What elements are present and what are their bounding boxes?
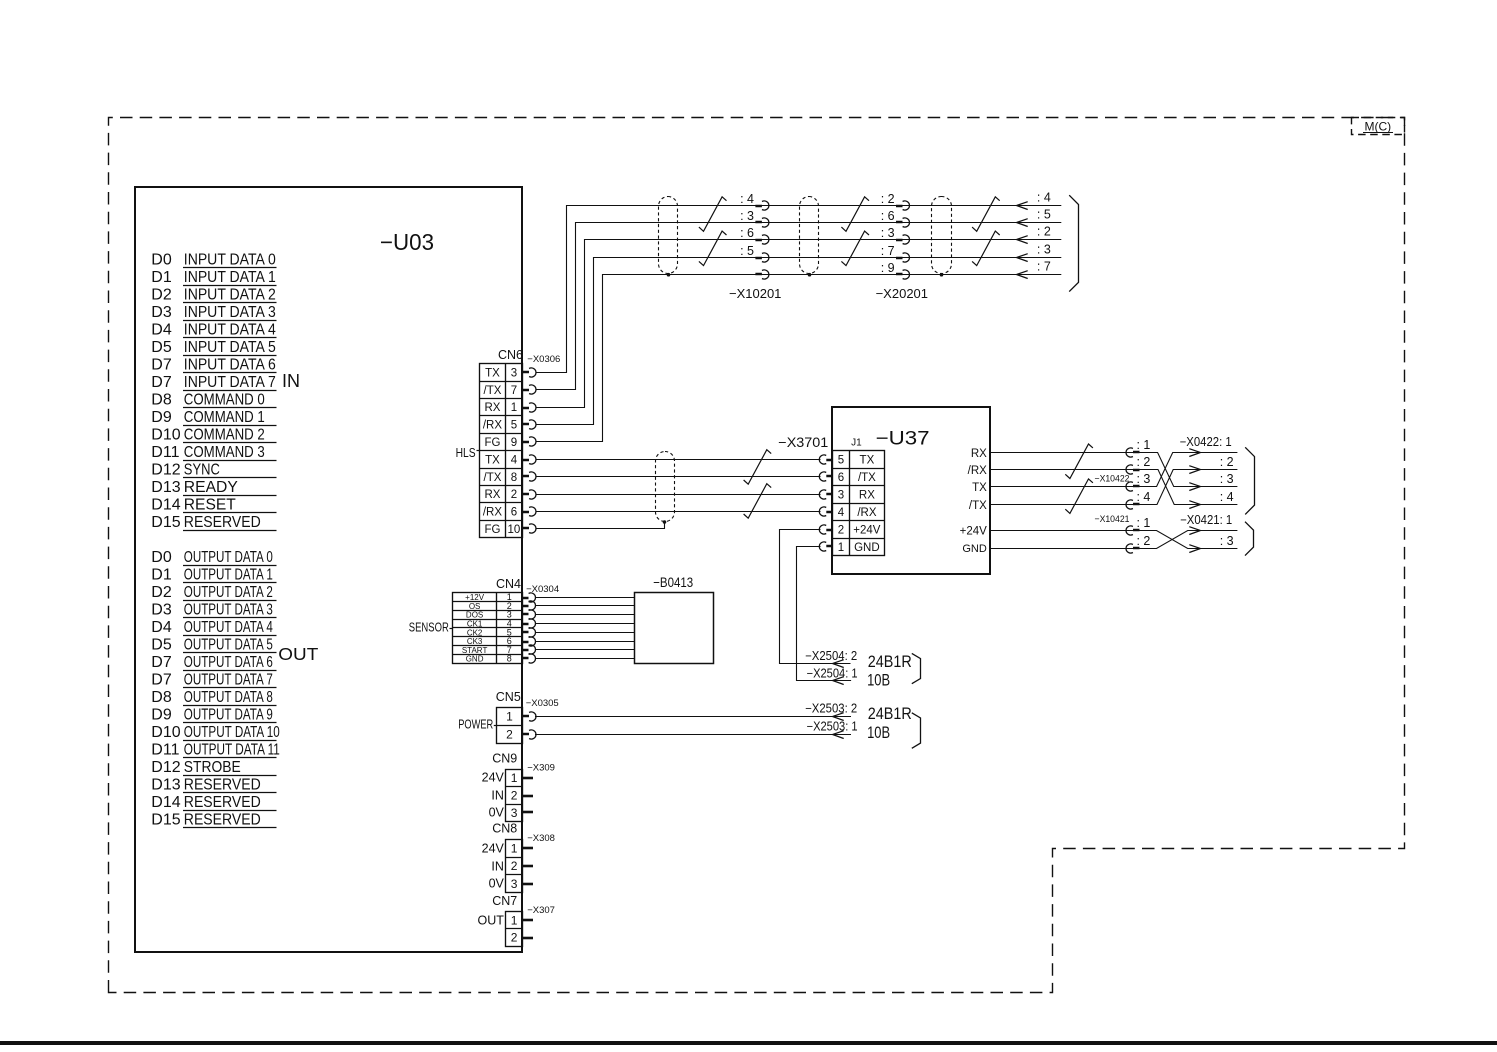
svg-text:−U03: −U03 (380, 229, 434, 255)
svg-text:−X10422: −X10422 (1095, 474, 1130, 484)
svg-text:D5: D5 (151, 637, 172, 654)
svg-text:−X10201: −X10201 (729, 286, 781, 301)
svg-text:−X2504: 2: −X2504: 2 (805, 649, 857, 663)
svg-text:−X10421: −X10421 (1095, 514, 1130, 524)
svg-text:D1: D1 (151, 567, 172, 584)
svg-text:INPUT DATA 2: INPUT DATA 2 (184, 287, 276, 304)
svg-text:1: 1 (511, 771, 518, 785)
svg-text:2: 2 (511, 931, 518, 945)
svg-text:INPUT DATA 0: INPUT DATA 0 (184, 252, 276, 269)
svg-text:RX: RX (484, 402, 500, 414)
svg-text:RESERVED: RESERVED (184, 514, 261, 531)
svg-text:−X2503: 2: −X2503: 2 (805, 701, 857, 715)
svg-text:/RX: /RX (483, 420, 503, 432)
svg-text:RX: RX (859, 489, 875, 501)
svg-text:: 1: : 1 (1136, 516, 1150, 530)
svg-text:: 3: : 3 (740, 209, 754, 223)
svg-text:OUTPUT DATA 9: OUTPUT DATA 9 (184, 707, 273, 724)
svg-text:HLS: HLS (456, 446, 476, 460)
svg-text:D8: D8 (151, 689, 172, 706)
svg-text:: 5: : 5 (740, 244, 754, 258)
svg-text:−X307: −X307 (527, 905, 555, 916)
svg-text:INPUT DATA 5: INPUT DATA 5 (184, 339, 276, 356)
svg-text:−X2503: 1: −X2503: 1 (807, 720, 858, 734)
svg-text:GND: GND (854, 542, 880, 554)
svg-text:D1: D1 (151, 269, 172, 286)
svg-text:: 3: : 3 (1136, 472, 1150, 486)
svg-text:/TX: /TX (969, 500, 987, 512)
svg-text:0V: 0V (489, 877, 505, 891)
svg-text:: 3: : 3 (1220, 472, 1234, 486)
svg-text:D8: D8 (151, 392, 172, 409)
svg-text:0V: 0V (489, 806, 505, 820)
svg-text:D4: D4 (151, 322, 172, 339)
svg-text:: 2: : 2 (1220, 455, 1234, 469)
svg-text:3: 3 (511, 806, 518, 820)
svg-text:: 2: : 2 (1136, 455, 1150, 469)
svg-text:: 6: : 6 (740, 226, 754, 240)
svg-text:D9: D9 (151, 409, 172, 426)
svg-text:−X20201: −X20201 (876, 286, 928, 301)
svg-text:RESET: RESET (184, 497, 236, 514)
svg-text:D13: D13 (151, 777, 180, 794)
svg-text:24V: 24V (482, 771, 505, 785)
svg-text:D14: D14 (151, 794, 180, 811)
svg-text:10: 10 (508, 524, 521, 536)
svg-text:START: START (462, 646, 488, 655)
svg-text:SYNC: SYNC (184, 462, 220, 479)
svg-text:1: 1 (511, 842, 518, 856)
svg-text:D4: D4 (151, 619, 172, 636)
svg-text:RESERVED: RESERVED (184, 777, 261, 794)
svg-text:CN9: CN9 (492, 752, 517, 766)
svg-text:D10: D10 (151, 724, 180, 741)
svg-text:D0: D0 (151, 549, 172, 566)
svg-text:CN6: CN6 (498, 348, 523, 362)
svg-text:−X309: −X309 (527, 763, 555, 774)
svg-text:1: 1 (838, 542, 844, 554)
svg-text:GND: GND (962, 543, 987, 555)
svg-text:D7: D7 (151, 654, 172, 671)
svg-text:RESERVED: RESERVED (184, 812, 261, 829)
svg-text:/TX: /TX (858, 472, 876, 484)
svg-text:D9: D9 (151, 707, 172, 724)
svg-text:OUT: OUT (278, 644, 318, 664)
svg-text:/TX: /TX (484, 472, 502, 484)
svg-text:IN: IN (491, 789, 504, 803)
svg-text:1: 1 (511, 913, 518, 927)
svg-text:: 1: : 1 (1136, 438, 1150, 452)
svg-text:/TX: /TX (484, 385, 502, 397)
svg-text:INPUT DATA 3: INPUT DATA 3 (184, 304, 276, 321)
svg-text:CN4: CN4 (496, 577, 521, 591)
svg-text:COMMAND 2: COMMAND 2 (184, 427, 265, 444)
svg-text:D15: D15 (151, 812, 180, 829)
svg-text:IN: IN (491, 860, 504, 874)
svg-text:OUT: OUT (478, 914, 505, 928)
svg-text:INPUT DATA 1: INPUT DATA 1 (184, 269, 276, 286)
svg-text:INPUT DATA 4: INPUT DATA 4 (184, 322, 276, 339)
svg-text:TX: TX (972, 482, 987, 494)
svg-text:: 6: : 6 (881, 209, 895, 223)
svg-text:: 7: : 7 (881, 244, 895, 258)
svg-text:8: 8 (507, 654, 512, 664)
svg-text:: 7: : 7 (1037, 259, 1051, 273)
svg-text:/RX: /RX (483, 507, 503, 519)
svg-text:5: 5 (511, 420, 517, 432)
svg-text:D0: D0 (151, 252, 172, 269)
svg-text:6: 6 (838, 472, 844, 484)
svg-text:4: 4 (511, 454, 518, 466)
svg-text:6: 6 (511, 507, 517, 519)
svg-text:SENSOR: SENSOR (409, 620, 449, 634)
svg-text:OUTPUT DATA 6: OUTPUT DATA 6 (184, 654, 273, 671)
svg-text:D11: D11 (151, 444, 179, 461)
svg-text:M(C): M(C) (1364, 119, 1391, 133)
svg-text:D2: D2 (151, 287, 172, 304)
svg-text:: 4: : 4 (740, 192, 754, 206)
svg-text:1: 1 (511, 402, 517, 414)
svg-text:OUTPUT DATA 1: OUTPUT DATA 1 (184, 567, 273, 584)
svg-text:−X3701: −X3701 (778, 435, 828, 450)
svg-text:10B: 10B (867, 672, 890, 690)
svg-text:−X0422: 1: −X0422: 1 (1180, 435, 1232, 449)
svg-text:CK1: CK1 (467, 620, 483, 629)
svg-text:: 2: : 2 (1136, 534, 1150, 548)
svg-text:: 5: : 5 (1037, 207, 1051, 221)
svg-text:FG: FG (484, 437, 500, 449)
svg-text:DOS: DOS (466, 611, 483, 620)
svg-text:3: 3 (511, 877, 518, 891)
svg-text:24B1R: 24B1R (868, 705, 912, 723)
svg-text:TX: TX (860, 454, 875, 466)
svg-text:4: 4 (838, 507, 845, 519)
svg-text:STROBE: STROBE (184, 759, 241, 776)
svg-text:IN: IN (282, 371, 300, 391)
svg-text:: 3: : 3 (1037, 242, 1051, 256)
svg-text:−U37: −U37 (876, 429, 930, 450)
svg-text:CN5: CN5 (496, 690, 521, 704)
svg-text:−X308: −X308 (527, 833, 555, 844)
svg-text:3: 3 (511, 367, 517, 379)
svg-text:D7: D7 (151, 672, 172, 689)
svg-text:5: 5 (838, 454, 844, 466)
svg-text:POWER: POWER (458, 717, 493, 731)
svg-text:+12V: +12V (465, 593, 485, 602)
svg-text:D10: D10 (151, 427, 180, 444)
svg-text:CK3: CK3 (467, 637, 483, 646)
svg-text:OUTPUT DATA 3: OUTPUT DATA 3 (184, 602, 273, 619)
svg-text:D13: D13 (151, 479, 180, 496)
svg-text:D12: D12 (151, 462, 180, 479)
svg-text:D2: D2 (151, 584, 172, 601)
svg-text:2: 2 (511, 489, 517, 501)
svg-text:D7: D7 (151, 374, 172, 391)
svg-text:D11: D11 (151, 742, 179, 759)
svg-text:2: 2 (838, 524, 844, 536)
svg-text:3: 3 (838, 489, 844, 501)
svg-text:D3: D3 (151, 304, 172, 321)
svg-text:9: 9 (511, 437, 517, 449)
svg-text:COMMAND 0: COMMAND 0 (184, 392, 265, 409)
svg-text:: 4: : 4 (1220, 490, 1234, 504)
svg-text:OUTPUT DATA 0: OUTPUT DATA 0 (184, 549, 273, 566)
svg-text:: 2: : 2 (881, 192, 895, 206)
svg-text:D15: D15 (151, 514, 180, 531)
svg-text:−X0421: 1: −X0421: 1 (1180, 513, 1232, 527)
svg-text:−X0306: −X0306 (527, 354, 560, 365)
svg-text:OUTPUT DATA 7: OUTPUT DATA 7 (184, 672, 273, 689)
svg-text:OUTPUT DATA 11: OUTPUT DATA 11 (184, 742, 280, 759)
svg-text:COMMAND 3: COMMAND 3 (184, 444, 265, 461)
svg-text:RX: RX (971, 448, 987, 460)
svg-text:J1: J1 (851, 437, 862, 448)
svg-text:: 3: : 3 (1220, 534, 1234, 548)
svg-text:D12: D12 (151, 759, 180, 776)
svg-text:CN7: CN7 (492, 894, 517, 908)
svg-text:OUTPUT DATA 4: OUTPUT DATA 4 (184, 619, 273, 636)
svg-text:: 9: : 9 (881, 261, 895, 275)
svg-text:−X2504: 1: −X2504: 1 (807, 666, 858, 680)
svg-text:: 4: : 4 (1037, 190, 1051, 204)
svg-text:24V: 24V (482, 842, 505, 856)
svg-text:CK2: CK2 (467, 628, 483, 637)
svg-text:RX: RX (484, 489, 500, 501)
svg-text:: 3: : 3 (881, 226, 895, 240)
svg-text:OUTPUT DATA 5: OUTPUT DATA 5 (184, 637, 273, 654)
svg-text:/RX: /RX (968, 465, 988, 477)
svg-text:GND: GND (466, 655, 484, 664)
svg-text:OUTPUT DATA 10: OUTPUT DATA 10 (184, 724, 280, 741)
svg-text:/RX: /RX (857, 507, 877, 519)
svg-text:−X0305: −X0305 (526, 698, 559, 709)
svg-text:: 4: : 4 (1136, 490, 1150, 504)
svg-text:OUTPUT DATA 8: OUTPUT DATA 8 (184, 689, 273, 706)
svg-text:FG: FG (484, 524, 500, 536)
svg-text:INPUT DATA 6: INPUT DATA 6 (184, 357, 276, 374)
svg-text:TX: TX (485, 454, 500, 466)
svg-text:INPUT DATA 7: INPUT DATA 7 (184, 374, 276, 391)
svg-text:10B: 10B (867, 724, 890, 742)
svg-text:RESERVED: RESERVED (184, 794, 261, 811)
svg-text:2: 2 (506, 727, 513, 741)
svg-text:2: 2 (511, 788, 518, 802)
svg-text:24B1R: 24B1R (868, 653, 912, 671)
svg-text:+24V: +24V (853, 524, 881, 536)
svg-text:CN8: CN8 (492, 822, 517, 836)
svg-text:READY: READY (184, 479, 238, 496)
svg-text:1: 1 (506, 709, 513, 723)
svg-text:D5: D5 (151, 339, 172, 356)
svg-text:D7: D7 (151, 357, 172, 374)
svg-text:TX: TX (485, 367, 500, 379)
svg-text:7: 7 (511, 385, 517, 397)
svg-text:: 2: : 2 (1037, 224, 1051, 238)
svg-text:2: 2 (511, 859, 518, 873)
svg-text:−B0413: −B0413 (653, 575, 693, 590)
svg-text:D14: D14 (151, 497, 180, 514)
svg-text:D3: D3 (151, 602, 172, 619)
svg-text:OUTPUT DATA 2: OUTPUT DATA 2 (184, 584, 273, 601)
svg-text:8: 8 (511, 472, 517, 484)
svg-text:COMMAND 1: COMMAND 1 (184, 409, 265, 426)
svg-text:OS: OS (469, 602, 481, 611)
svg-text:+24V: +24V (960, 526, 988, 538)
